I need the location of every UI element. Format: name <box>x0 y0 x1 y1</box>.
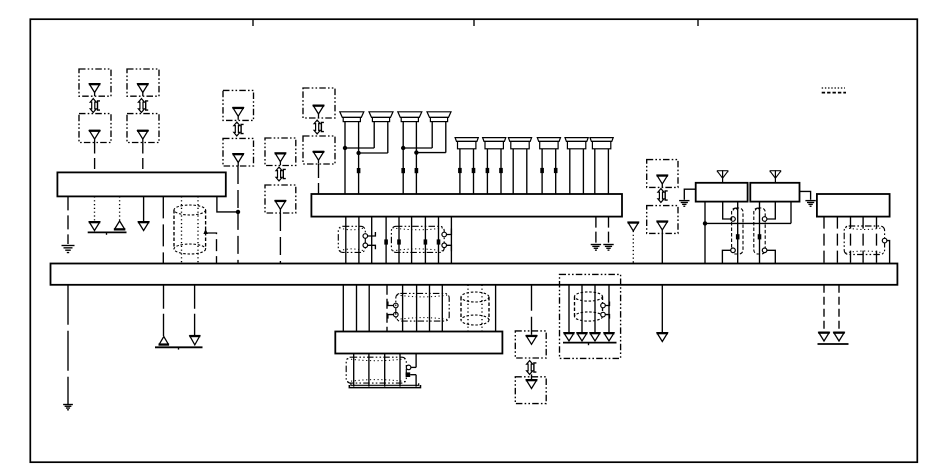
wire through F3 1 <box>402 285 404 332</box>
drain link T2a <box>447 229 452 235</box>
U3 pin wire 4 <box>399 354 401 387</box>
T6a link <box>605 302 609 306</box>
connector box C1 <box>223 90 254 120</box>
SC2 drain to bus bar <box>767 250 775 263</box>
connector box A1 <box>79 69 111 96</box>
legend dotted row <box>822 87 845 89</box>
shield terminal T6a <box>601 303 606 308</box>
shield terminal T4a <box>406 365 411 370</box>
joint connector underline 3 <box>818 343 849 345</box>
wire E2 to ECU2 <box>318 164 320 194</box>
splice on leg x501.0 <box>499 168 503 173</box>
module box R1 <box>696 183 748 202</box>
dotted wire U1 pin2 <box>94 196 96 221</box>
wire B2 to ECU1 <box>142 143 144 173</box>
T6b link <box>605 315 609 319</box>
H2 right leg <box>387 121 389 153</box>
S4 left leg <box>541 149 543 194</box>
cable coil F2 <box>391 226 444 252</box>
T4a link <box>411 366 416 368</box>
splice on H3R leg <box>415 168 419 173</box>
U2 pin wire 4 to bus bar <box>385 217 387 264</box>
splice on leg x555.7 <box>554 168 558 173</box>
ground G5 <box>805 201 815 207</box>
connector box K2 <box>515 377 546 404</box>
wire through SC2 <box>759 202 761 264</box>
splice d3 <box>424 239 428 244</box>
R2 right pin wire <box>790 202 792 224</box>
twisted-pair symbol K <box>527 361 537 375</box>
S5 right leg <box>582 149 584 194</box>
splice on leg x542.1 <box>540 168 544 173</box>
connector box D2 <box>265 185 296 213</box>
S5 left leg <box>569 149 571 194</box>
plug triangle in D2 <box>275 200 287 213</box>
connector arrow P3 <box>114 221 126 231</box>
plug triangle in D1 <box>275 152 287 165</box>
U2 pin wire 2 to bus bar <box>358 217 360 264</box>
dotted wire U1 pin3 <box>119 196 121 221</box>
connector box D1 <box>265 138 296 166</box>
splice in SC1 <box>736 234 740 239</box>
ground G3 <box>603 245 613 251</box>
connector arrow P5 <box>628 221 640 231</box>
splice on leg x487.4 <box>486 168 490 173</box>
K2 stem wire <box>531 374 533 379</box>
connector box K1 <box>515 331 546 358</box>
shielded wire 1 through S2 <box>467 285 469 332</box>
ground G1 <box>62 246 75 253</box>
twisted-pair symbol B <box>138 99 148 113</box>
wire through F3 3 <box>429 285 431 332</box>
shield terminal T2a <box>442 232 447 237</box>
underline tick 2a <box>178 347 180 349</box>
shielded cable SC1 <box>732 208 743 254</box>
shield terminal T2b <box>442 243 447 248</box>
shield terminal C2t <box>762 217 767 222</box>
wire to U3 right <box>495 285 497 332</box>
bus bar to U3 wire 2 <box>356 285 358 332</box>
U2 pin wire 5 to bus bar <box>398 217 400 264</box>
connector box E2 <box>303 136 335 164</box>
border tick 2 <box>473 19 475 26</box>
bus bar to U3 wire 1 <box>342 285 344 332</box>
connector arrow P2 <box>89 221 101 231</box>
H4 left leg <box>431 121 433 148</box>
shielded wire 2 through S2 <box>481 285 483 332</box>
H3 left leg <box>402 121 404 194</box>
wire bus bar to P8 <box>661 285 663 332</box>
wire bus bar to K1 <box>531 285 533 335</box>
shield link a <box>388 302 394 306</box>
H4 right leg <box>445 121 447 152</box>
dashed shield wire <box>386 285 388 332</box>
SC1 twist top <box>733 208 738 210</box>
ECU box U1 <box>57 172 225 196</box>
H3 right leg <box>415 121 417 194</box>
ground G2 <box>591 245 601 251</box>
link H1L-H2L <box>345 147 374 149</box>
R3 pin wire 2 <box>836 217 838 264</box>
sensor header S1 <box>455 138 478 149</box>
U2 pin wire 7 to bus bar <box>424 217 426 264</box>
connector arrow P9 <box>818 332 830 342</box>
interlink wire <box>705 222 791 224</box>
wire C2 down to J1 <box>237 166 239 212</box>
S2 left leg <box>486 149 488 194</box>
drain link T1b <box>368 245 376 249</box>
splice on H3L leg <box>401 168 405 173</box>
plug triangle in B1 <box>137 83 149 96</box>
assembly wire 4 <box>608 285 610 332</box>
bus bar to U3 wire 3 <box>368 285 370 332</box>
junction J1 <box>236 210 240 214</box>
splice d1 <box>384 239 388 244</box>
shield cylinder S1 <box>174 205 206 254</box>
plug triangle in G2 <box>657 220 669 233</box>
U3 pin wire 3 <box>384 354 386 387</box>
wire U1 pin6 to node J1 <box>217 196 238 212</box>
S6 left leg <box>594 149 596 194</box>
long wire U1 pin5 to bus bar <box>162 196 164 263</box>
plug triangle in E1 <box>313 105 325 118</box>
wire U1 pin4 <box>143 196 145 221</box>
splice on H1R leg <box>357 168 361 173</box>
ground wire U2 gnd1 <box>595 217 597 244</box>
connector box G2 <box>647 206 678 234</box>
main harness bus bar <box>51 264 898 285</box>
H1 left leg <box>344 121 346 194</box>
plug triangle in A1 <box>89 83 101 96</box>
S3 right leg <box>526 149 528 194</box>
twisted-pair symbol C <box>234 122 244 136</box>
joint connector underline 2 <box>155 346 203 348</box>
splice square T4b <box>406 372 411 377</box>
twisted-pair symbol E <box>314 120 324 134</box>
U2 pin wire 6 to bus bar <box>411 217 413 264</box>
S1 left leg <box>459 149 461 194</box>
ground wire from U1 pin1 <box>67 196 69 244</box>
link H3L-H4L <box>403 147 432 149</box>
cable coil F3 <box>396 293 449 321</box>
R1 pin to shield top <box>723 202 731 219</box>
harness assembly outline <box>560 274 621 358</box>
drain link T2b <box>447 245 452 251</box>
splice d4 <box>437 239 441 244</box>
connector arrow P4 <box>138 221 150 231</box>
assembly arrow 2 <box>577 332 588 341</box>
SC2 shield to R2 <box>767 202 775 219</box>
H2 left leg <box>373 121 375 148</box>
connector arrow P7 <box>189 335 200 345</box>
sensor header S4 <box>537 138 560 149</box>
ground lead R1 <box>684 189 695 200</box>
plug triangle in B2 <box>137 130 149 143</box>
antenna triangle on R2 <box>770 170 782 183</box>
border tick 3 <box>697 19 699 26</box>
U2 pin wire 1 to bus bar <box>345 217 347 264</box>
plug triangle in E2 <box>313 151 325 164</box>
wire to up-arrow P6 <box>163 285 165 336</box>
U2 pin wire 8 to bus bar <box>438 217 440 264</box>
cable coil F1 <box>338 226 365 252</box>
U3 pin wire 5 lower <box>415 375 417 387</box>
sensor header S6 <box>590 138 613 149</box>
sensor header H3 <box>398 112 422 122</box>
shielded cable SC2 <box>754 208 765 254</box>
F5 drain to bus bar <box>887 241 890 264</box>
link H1R-H2R <box>359 152 388 154</box>
underline tick 3 <box>588 343 590 346</box>
junction H1L <box>343 146 347 150</box>
U2 pin wire 9 to bus bar <box>450 217 452 264</box>
wire to down-arrow P7 <box>194 285 196 335</box>
antenna triangle on R1 <box>717 170 729 183</box>
plug triangle in G1 <box>657 174 669 187</box>
shield terminal T1b <box>363 243 368 248</box>
underline tick <box>106 232 108 234</box>
junction H1R <box>356 151 360 155</box>
S4 right leg <box>555 149 557 194</box>
module box R2 <box>750 183 799 202</box>
connector arrow P10 <box>833 332 845 342</box>
connector arrow P6 <box>159 337 170 346</box>
plug triangle in K2 <box>526 379 538 389</box>
sensor header H2 <box>369 112 393 122</box>
ground wire from bus bar left <box>67 285 69 404</box>
R1 pin wire a <box>704 202 706 264</box>
shield cylinder S3 <box>575 292 603 321</box>
wire through SC1 <box>737 202 739 264</box>
connector box A2 <box>79 114 111 143</box>
R3 pin wire 5 <box>876 217 878 264</box>
shield terminal T6b <box>601 312 606 317</box>
sensor header H1 <box>340 112 364 122</box>
wire G2 to bus bar <box>661 233 663 263</box>
cable coil F5 <box>844 226 884 255</box>
wire D2 to bus bar <box>279 213 281 264</box>
S2 right leg <box>500 149 502 194</box>
drain link T1a <box>368 232 376 236</box>
R3 pin wire 1 <box>823 217 825 264</box>
border tick 1 <box>252 19 254 26</box>
U3 pin wire 1 <box>353 354 355 387</box>
twisted-pair symbol A <box>90 99 100 113</box>
module box R3 <box>817 194 890 217</box>
splice on leg x459.9 <box>458 168 462 173</box>
connector box G1 <box>647 160 678 188</box>
shield terminal C2b <box>762 248 767 253</box>
shield terminal T3a <box>394 303 399 308</box>
H1 right leg <box>358 121 360 194</box>
connector arrow P8 <box>657 332 669 342</box>
shield link b <box>388 315 394 319</box>
S1 right leg <box>473 149 475 194</box>
U2 pin wire 3 to bus bar <box>371 217 373 264</box>
assembly wire 2 <box>581 285 583 332</box>
twisted-pair symbol G <box>658 189 668 203</box>
junction J2 <box>703 221 707 225</box>
assembly underline <box>563 342 617 344</box>
wire A2 to ECU1 <box>94 143 96 173</box>
assembly arrow 3 <box>590 332 601 341</box>
splice in SC2 <box>758 234 762 239</box>
ground wire U2 gnd2 <box>608 217 610 244</box>
T4b link <box>410 374 416 376</box>
SC1 drain to bus bar <box>722 250 730 263</box>
sensor header H4 <box>427 112 451 122</box>
dashed wire to P9 <box>823 285 825 332</box>
ground lead R2 <box>800 191 811 199</box>
shield cylinder S2 <box>461 292 489 325</box>
plug triangle in A2 <box>89 130 101 143</box>
shield terminal C1b <box>731 248 736 253</box>
shielded wire 1 through S1 <box>181 196 183 263</box>
splice d2 <box>397 239 401 244</box>
connector box B2 <box>127 114 159 143</box>
connector box E1 <box>303 88 335 118</box>
assembly arrow 1 <box>564 332 575 341</box>
S6 right leg <box>607 149 609 194</box>
SC2 twist top <box>755 208 760 210</box>
shield terminal C1t <box>731 217 736 222</box>
dashed wire to P10 <box>838 285 840 332</box>
ground G4 <box>679 201 689 207</box>
shield terminal T1a <box>363 234 368 239</box>
connector box C2 <box>223 138 254 166</box>
assembly arrow 4 <box>604 332 615 341</box>
R3 pin wire 3 <box>850 217 852 264</box>
splice on leg x473.5 <box>472 168 476 173</box>
wire through F3 4 <box>441 285 443 332</box>
plug triangle in K1 <box>526 335 538 345</box>
junction H3R <box>414 150 418 154</box>
assembly wire 3 <box>594 285 596 332</box>
sensor header S2 <box>483 138 506 149</box>
shield terminal T3b <box>394 312 399 317</box>
plug triangle in C2 <box>232 153 244 166</box>
sensor header S3 <box>508 138 531 149</box>
twisted-pair symbol D <box>276 167 286 181</box>
wire J1 to bus bar <box>237 212 239 264</box>
legend dashed row <box>822 92 846 94</box>
assembly wire 1 <box>568 285 570 332</box>
S3 left leg <box>512 149 514 194</box>
shield tap arrow on S1 <box>203 229 207 234</box>
joint connector underline <box>88 231 127 233</box>
shield terminal T5 <box>882 238 887 243</box>
sensor header S5 <box>565 138 588 149</box>
link H3R-H4R <box>416 152 445 154</box>
connector box B1 <box>127 69 159 96</box>
ECU box U3 <box>335 332 502 354</box>
junction H3L <box>401 146 405 150</box>
ECU box U2 <box>311 194 622 217</box>
plug triangle in C1 <box>232 107 244 120</box>
R3 pin wire 4 <box>862 217 864 264</box>
U3 pin wire 2 <box>368 354 370 387</box>
wire through F3 2 <box>416 285 418 332</box>
U3 pin wire 5 upper <box>415 354 417 368</box>
shielded wire 2 through S1 <box>197 196 199 263</box>
ground G6 <box>63 405 73 410</box>
mounting rail <box>349 383 420 387</box>
cable coil F4 <box>346 357 406 383</box>
shield drain wire of S1 <box>206 233 217 264</box>
dotted wire P5 to bus bar <box>632 231 634 264</box>
